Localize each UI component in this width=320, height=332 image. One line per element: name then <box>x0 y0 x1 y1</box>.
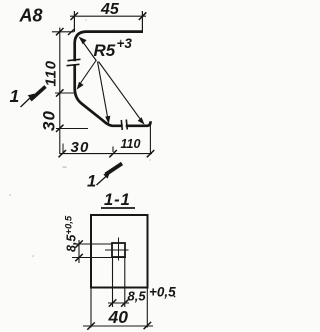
left stub <box>62 144 64 154</box>
svg-text:8,5: 8,5 <box>128 289 147 304</box>
bottom dimension line (30/110) <box>60 153 152 155</box>
leader 3 to bottom bend <box>98 62 109 120</box>
section mark 1 (left): thick bar <box>31 87 46 101</box>
svg-text:1-1: 1-1 <box>104 191 131 209</box>
svg-text:+3: +3 <box>117 36 133 51</box>
svg-text:1: 1 <box>10 86 20 106</box>
square hole <box>112 243 125 257</box>
ext line bottom at y128.5 <box>56 128 88 130</box>
paper specks <box>9 19 151 256</box>
section mark 1 (bottom): thick bar <box>106 164 123 175</box>
svg-text:+0,5: +0,5 <box>149 285 176 300</box>
ext line top at y31.6 <box>52 31 74 33</box>
tick top <box>56 28 64 35</box>
section plate rectangle <box>91 215 148 288</box>
left dimension line (110/30) <box>59 28 61 155</box>
ticks <box>109 299 117 306</box>
leader 2 to lower-left bend <box>79 61 97 87</box>
right ext line down from bar end <box>149 122 151 154</box>
tick left of 45 <box>71 13 79 21</box>
hole centerline vertical <box>118 238 120 261</box>
left dim vertical line <box>78 240 80 263</box>
section mark 1 (bottom): arrow <box>97 176 108 186</box>
svg-text:1: 1 <box>87 173 96 191</box>
part outline (bent bar) <box>75 32 151 126</box>
dimension 45 line <box>70 15 146 17</box>
svg-text:30: 30 <box>71 139 90 156</box>
tick right of 45 <box>139 12 147 20</box>
section mark 1 (left): arrow <box>21 97 32 108</box>
break mark on vertical leg (double dash + gap) <box>67 59 81 65</box>
tick bottom <box>56 125 64 132</box>
dim line 40 <box>83 325 153 327</box>
short dim line <box>108 302 129 304</box>
extension line right <box>141 11 143 32</box>
small tick at corner <box>68 29 74 35</box>
svg-text:30: 30 <box>40 110 59 131</box>
tick middle <box>56 89 64 96</box>
ticks <box>87 322 95 329</box>
leader 1 to top bend <box>82 40 97 61</box>
lower dim 8,5: ext verticals from square <box>112 258 114 307</box>
left dim 8,5+0,5: ext lines <box>73 243 112 245</box>
svg-text:110: 110 <box>121 137 141 151</box>
tick left <box>59 150 67 157</box>
svg-text:R5: R5 <box>94 41 116 60</box>
leader 4 to bottom line right <box>99 62 143 122</box>
svg-text:45: 45 <box>100 1 120 18</box>
bar end hook blob <box>148 121 151 126</box>
ticks <box>75 240 83 247</box>
svg-text:40: 40 <box>108 307 129 327</box>
svg-text:A8: A8 <box>19 6 43 26</box>
break mark on bottom leg <box>121 120 127 131</box>
tick right <box>147 150 155 157</box>
tick middle + stub <box>112 147 114 153</box>
svg-text:110: 110 <box>43 60 60 86</box>
hole centerline horizontal <box>105 249 129 251</box>
dim 40: ext verticals <box>90 288 92 328</box>
ext line middle at y93 <box>55 92 75 94</box>
extension line left (corner up) <box>73 11 75 32</box>
